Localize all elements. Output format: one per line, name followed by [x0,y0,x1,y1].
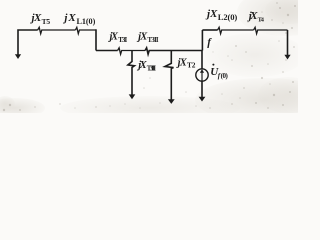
svg-text:jX: jX [30,12,42,24]
svg-text:T4: T4 [258,17,265,24]
svg-text:jX: jX [247,10,258,22]
svg-text:T3II: T3II [147,36,158,44]
svg-text:L1(0): L1(0) [77,17,96,26]
svg-text:jX: jX [176,57,188,68]
svg-text:L2(0): L2(0) [218,12,238,22]
svg-text:jX: jX [62,12,76,24]
svg-text:T2: T2 [187,60,196,69]
svg-text:T5: T5 [42,17,51,26]
svg-text:(0): (0) [221,72,229,80]
svg-text:jX: jX [205,8,218,20]
svg-text:T3I: T3I [118,36,127,44]
svg-text:T3III: T3III [147,65,157,72]
